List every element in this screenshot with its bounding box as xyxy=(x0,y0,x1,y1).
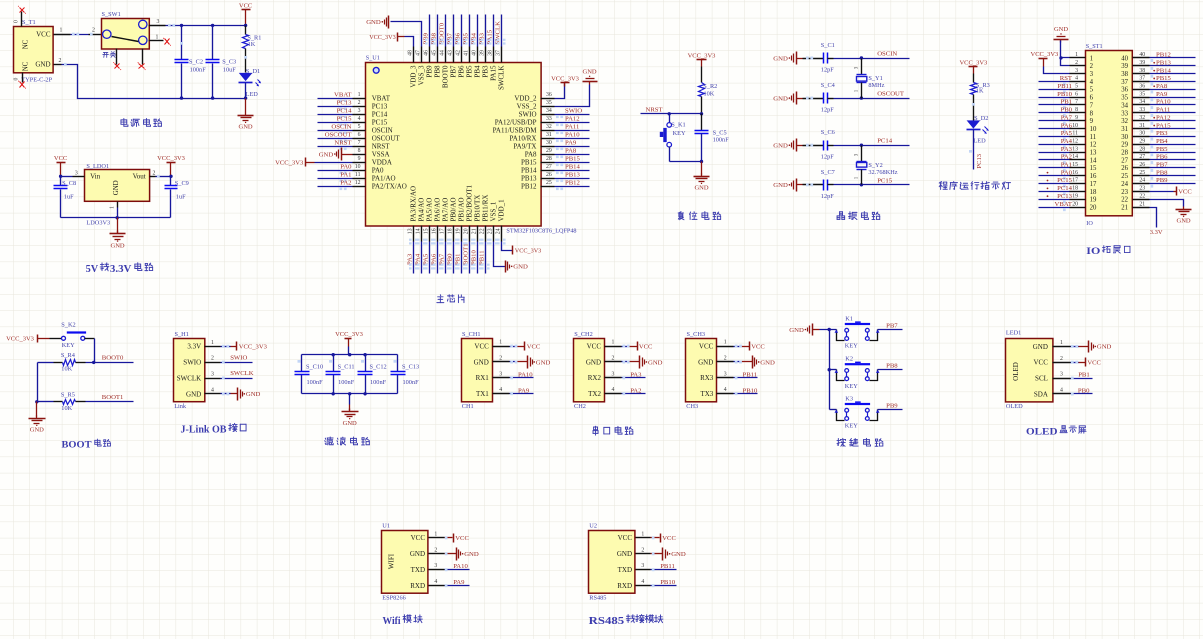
U1 pin 3 (TXD) xyxy=(411,563,445,574)
wire/net label PA12 xyxy=(555,116,590,126)
wire/net label PB6 (top) xyxy=(455,15,466,47)
svg-text:2: 2 xyxy=(358,100,361,106)
S_ST1 right pin 39 stub xyxy=(1133,60,1150,66)
title Wifi mo-kuai (wifi module) xyxy=(383,615,423,627)
push button K3 and net PB9 xyxy=(830,395,903,429)
svg-text:GND: GND xyxy=(1033,343,1048,351)
wire/net label PB13 (IO right) xyxy=(1150,59,1196,69)
svg-text:Vin: Vin xyxy=(90,173,101,181)
svg-text:RS485: RS485 xyxy=(589,595,606,602)
svg-text:SWCLK: SWCLK xyxy=(495,21,502,45)
S_CH3 pin 4 (TX3) xyxy=(700,387,733,398)
svg-text:12: 12 xyxy=(355,180,361,186)
U1 pin 2 (GND) xyxy=(410,547,445,558)
ground flag GND below LDO xyxy=(110,218,126,250)
svg-text:BOOT0: BOOT0 xyxy=(102,355,124,362)
svg-text:PA12: PA12 xyxy=(1156,114,1171,121)
svg-text:8: 8 xyxy=(1075,107,1078,113)
svg-text:3: 3 xyxy=(157,19,160,25)
svg-text:1K: 1K xyxy=(248,41,256,48)
svg-text:S_C13: S_C13 xyxy=(402,363,419,370)
capacitor S_C2 xyxy=(175,24,207,100)
MCU left pin 7 (NRST) xyxy=(353,140,391,150)
wire LDO Vin pin3 xyxy=(59,170,85,178)
svg-text:26: 26 xyxy=(1139,162,1145,168)
S_CH1 pin 3 (RX1) xyxy=(476,371,510,382)
svg-text:1: 1 xyxy=(499,340,502,346)
wire/net label PA7 (IO left) xyxy=(1039,114,1073,124)
svg-text:23: 23 xyxy=(488,228,494,234)
svg-text:GND: GND xyxy=(773,95,788,102)
svg-text:PB8: PB8 xyxy=(886,363,898,370)
resistor S_R1 1K xyxy=(243,26,262,73)
svg-text:5V: 5V xyxy=(86,264,99,275)
svg-text:PB7: PB7 xyxy=(450,65,458,78)
ground flag GND below LED xyxy=(238,99,254,131)
ground flag at MCU pin 23 VSS_1 xyxy=(494,242,528,273)
svg-text:BOOT1: BOOT1 xyxy=(102,394,124,401)
MCU top pin 43 (PB7) xyxy=(447,47,457,78)
S_ST1 inner pin names row 1 xyxy=(1090,55,1129,62)
svg-text:OLED: OLED xyxy=(1012,362,1020,381)
title fu-wei-dian-lu (reset circuit) xyxy=(678,212,721,220)
MCU left pin 8 (VSSA) xyxy=(353,148,390,158)
MCU right pin 31 (PA10/RX) xyxy=(510,132,555,142)
S_ST1 inner pin names row 18 xyxy=(1090,189,1129,196)
svg-text:3: 3 xyxy=(641,563,644,569)
ground flag GND keys xyxy=(789,324,819,336)
ground flag GND filter xyxy=(342,394,359,428)
module U1 body xyxy=(382,522,428,601)
svg-text:23: 23 xyxy=(1121,189,1128,196)
svg-text:PA2: PA2 xyxy=(340,180,351,187)
svg-text:35: 35 xyxy=(546,100,552,106)
wire/net label PA1 xyxy=(318,172,353,182)
wire/net label PA10 xyxy=(555,132,590,142)
svg-text:PB14: PB14 xyxy=(565,164,581,171)
svg-text:GND: GND xyxy=(694,185,708,192)
svg-text:PA9: PA9 xyxy=(565,140,577,147)
title IO tuo-zhan-kou (IO expansion) xyxy=(1086,246,1130,258)
svg-text:30: 30 xyxy=(546,140,552,146)
svg-text:10uF: 10uF xyxy=(223,66,236,73)
S_ST1 inner pin names row 4 xyxy=(1090,79,1129,86)
svg-text:PA7: PA7 xyxy=(439,253,446,265)
S_ST1 left pin 1 stub xyxy=(1070,52,1086,58)
svg-text:PA2: PA2 xyxy=(1061,154,1072,161)
svg-text:VDD_3: VDD_3 xyxy=(410,65,418,88)
svg-text:VSSA: VSSA xyxy=(372,150,390,158)
svg-text:1K: 1K xyxy=(976,87,984,94)
wire/net label PC14 (IO left) xyxy=(1039,185,1073,195)
svg-text:KEY: KEY xyxy=(845,423,858,430)
MCU top pin 39 (PB3) xyxy=(479,47,489,78)
svg-text:NRST: NRST xyxy=(372,142,391,150)
svg-text:S_C5: S_C5 xyxy=(713,129,727,136)
svg-text:35: 35 xyxy=(1121,95,1128,102)
S_ST1 inner pin names row 20 xyxy=(1090,204,1128,211)
svg-text:BOOT: BOOT xyxy=(62,441,93,451)
svg-text:PC15: PC15 xyxy=(1057,177,1073,184)
wire/net label PB0 (bottom) xyxy=(447,242,458,274)
svg-text:1: 1 xyxy=(60,28,63,34)
svg-text:31: 31 xyxy=(546,132,552,138)
svg-text:37: 37 xyxy=(495,50,501,56)
svg-text:KEY: KEY xyxy=(845,343,858,350)
wire/net label PA8 xyxy=(555,148,590,158)
svg-text:RS485: RS485 xyxy=(589,616,625,627)
svg-text:OSCIN: OSCIN xyxy=(331,124,351,131)
svg-text:GND: GND xyxy=(343,420,357,427)
svg-text:VCC: VCC xyxy=(411,534,426,542)
ground flag GND oled pin1 xyxy=(1071,341,1112,353)
S_ST1 left pin 8 stub xyxy=(1070,107,1086,113)
svg-text:PA12/USB/DP: PA12/USB/DP xyxy=(495,118,537,126)
MCU bottom pin 14 (PA4/AO) xyxy=(416,198,426,245)
MCU left pin 12 (PA2/TX/AO) xyxy=(353,180,407,190)
svg-text:1: 1 xyxy=(434,531,437,537)
MCU right pin 26 (PB13) xyxy=(521,172,555,182)
svg-text:100nF: 100nF xyxy=(190,66,207,73)
power flag VCC_3V3 at MCU pin 9 VDDA xyxy=(275,158,352,167)
svg-text:PB13: PB13 xyxy=(521,174,537,182)
svg-text:S_C3: S_C3 xyxy=(222,59,236,66)
svg-text:6: 6 xyxy=(358,132,361,138)
svg-text:40: 40 xyxy=(471,50,477,56)
S_CH1 pin 2 (GND) xyxy=(474,355,510,366)
wire/net label PB5 (IO right) xyxy=(1150,146,1196,156)
svg-text:VCC_3V3: VCC_3V3 xyxy=(239,344,268,351)
power flag VCC CH3 pin1 xyxy=(734,342,766,351)
connector S_CH1 body xyxy=(462,331,493,410)
svg-text:8MHz: 8MHz xyxy=(868,82,884,89)
svg-text:100nF: 100nF xyxy=(370,379,387,386)
MCU left pin 6 (OSCOUT) xyxy=(353,132,401,142)
svg-text:38: 38 xyxy=(1139,68,1145,74)
svg-text:PB5: PB5 xyxy=(466,65,474,78)
connector S_T1 (TYPE-C-2P) xyxy=(14,19,54,83)
S_ST1 right pin 22 stub xyxy=(1133,193,1150,199)
MCU right pin 29 (PA8) xyxy=(525,148,555,158)
svg-text:GND: GND xyxy=(586,358,601,366)
svg-text:GND: GND xyxy=(773,55,788,62)
S_ST1 inner pin names row 2 xyxy=(1090,63,1129,70)
wire/net label OSCIN xyxy=(318,124,353,134)
svg-text:2: 2 xyxy=(641,547,644,553)
svg-text:PB0: PB0 xyxy=(447,253,454,265)
wire S_T1 GND pin2 to bottom rail xyxy=(54,58,246,99)
svg-text:4: 4 xyxy=(499,387,502,393)
svg-text:2: 2 xyxy=(153,170,156,176)
svg-text:OLED: OLED xyxy=(1026,426,1058,437)
S_ST1 right pin 30 stub xyxy=(1133,131,1150,137)
S_ST1 left pin 20 stub xyxy=(1070,201,1086,207)
svg-text:1: 1 xyxy=(1075,52,1078,58)
svg-text:S_T1: S_T1 xyxy=(22,19,36,26)
svg-text:5: 5 xyxy=(1090,87,1094,94)
svg-text:10K: 10K xyxy=(61,366,72,373)
svg-text:PA2/TX/AO: PA2/TX/AO xyxy=(372,182,407,190)
LDO regulator S_LDO1 xyxy=(85,163,150,226)
wire/net label PC13 xyxy=(318,100,353,110)
module U2 body xyxy=(589,522,635,601)
svg-text:GND: GND xyxy=(239,124,253,131)
svg-text:CH1: CH1 xyxy=(462,403,474,410)
svg-text:21: 21 xyxy=(1139,201,1145,207)
svg-text:12: 12 xyxy=(1090,142,1097,149)
wire/net label PB3 (IO right) xyxy=(1150,130,1196,140)
power flag VCC U2 pin1 xyxy=(651,534,677,543)
svg-text:SDA: SDA xyxy=(1034,390,1048,398)
switch S_SW1 xyxy=(102,11,150,49)
wire/net label PA15 (IO right) xyxy=(1150,122,1196,132)
svg-text:VCC: VCC xyxy=(527,343,541,350)
svg-text:39: 39 xyxy=(479,50,485,56)
svg-text:25: 25 xyxy=(1139,170,1145,176)
S_CH2 pin 2 (GND) xyxy=(586,355,622,366)
svg-text:37: 37 xyxy=(1121,79,1128,86)
svg-text:GND: GND xyxy=(319,151,334,158)
MCU left pin 2 (PC13) xyxy=(353,100,388,110)
wire/net label PA0 (IO left) xyxy=(1039,169,1073,179)
connector S_H1 (J-Link OB) body xyxy=(174,331,205,410)
wire/net label PA11 (IO right) xyxy=(1150,107,1196,117)
svg-text:100nF: 100nF xyxy=(338,379,355,386)
wire/net label PB10 (IO left) xyxy=(1039,91,1073,101)
svg-text:3: 3 xyxy=(211,372,214,378)
svg-text:VBAT: VBAT xyxy=(1055,201,1072,208)
MCU left pin 1 (VBAT) xyxy=(353,92,391,102)
wire/net label SWIO xyxy=(555,108,590,118)
svg-text:LED: LED xyxy=(246,91,259,98)
svg-text:PA3/RX/AO: PA3/RX/AO xyxy=(410,186,418,222)
MCU right pin 25 (PB12) xyxy=(521,180,555,190)
svg-text:RST: RST xyxy=(1060,75,1072,82)
svg-text:PA6: PA6 xyxy=(1061,122,1073,129)
svg-text:RX1: RX1 xyxy=(476,374,490,382)
svg-text:PA7/AO: PA7/AO xyxy=(442,198,450,222)
svg-text:CH3: CH3 xyxy=(686,403,698,410)
svg-text:PA8: PA8 xyxy=(565,148,577,155)
title 5V to 3.3V circuit xyxy=(86,263,153,275)
svg-text:PB13: PB13 xyxy=(1156,59,1172,66)
svg-text:33: 33 xyxy=(1139,107,1145,113)
wire/net label PA10 (IO right) xyxy=(1150,99,1196,109)
svg-text:SWCLK: SWCLK xyxy=(230,370,254,377)
svg-text:100nF: 100nF xyxy=(713,137,730,144)
ground flag GND at IO pin 22 xyxy=(1150,200,1192,225)
svg-text:PA1: PA1 xyxy=(1061,162,1072,169)
svg-text:34: 34 xyxy=(1139,99,1145,105)
svg-text:10: 10 xyxy=(1090,126,1097,133)
S_ST1 right pin 23 stub xyxy=(1133,186,1150,192)
svg-text:GND: GND xyxy=(789,327,804,334)
svg-text:S_CH1: S_CH1 xyxy=(462,331,481,338)
ground flag GND at IO pins 1-2 xyxy=(1054,26,1070,65)
wire/net label PB5 (top) xyxy=(463,15,474,47)
wire/net label PB14 (IO right) xyxy=(1150,67,1196,77)
svg-text:12pF: 12pF xyxy=(821,66,834,73)
svg-text:9: 9 xyxy=(358,156,361,162)
wire/net label PB15 xyxy=(555,156,590,166)
svg-text:100nF: 100nF xyxy=(307,379,324,386)
wire/net label PB0 (IO left) xyxy=(1039,107,1073,117)
MCU top pin 42 (PB6) xyxy=(455,47,465,78)
capacitor S_C6 12pF with GND, net PC14 xyxy=(773,129,909,160)
S_ST1 right pin 21 stub xyxy=(1133,201,1150,207)
svg-text:32: 32 xyxy=(1139,115,1145,121)
svg-text:S_H1: S_H1 xyxy=(175,331,189,338)
svg-text:S_C10: S_C10 xyxy=(306,363,323,370)
push button S_K2 KEY (boot) xyxy=(61,321,86,349)
svg-text:PA9: PA9 xyxy=(1156,91,1168,98)
svg-text:100nF: 100nF xyxy=(403,379,420,386)
wire/net label PA10 (CH1 pin3) xyxy=(510,371,534,379)
svg-text:PB11: PB11 xyxy=(479,250,486,265)
MCU top pin 48 (VDD_3) xyxy=(407,47,417,88)
svg-text:PA9: PA9 xyxy=(453,579,465,586)
S_H1 pin 4 (GND) xyxy=(186,387,220,398)
svg-text:RX2: RX2 xyxy=(588,374,602,382)
S_ST1 right pin 32 stub xyxy=(1133,115,1150,121)
svg-text:VDDA: VDDA xyxy=(372,158,392,166)
S_CH1 pin 1 (VCC) xyxy=(474,340,509,351)
svg-text:37: 37 xyxy=(1139,76,1145,82)
power flag VCC at IO pin 23 xyxy=(1150,187,1193,196)
ground flag GND CH1 pin2 xyxy=(510,356,551,369)
svg-text:2: 2 xyxy=(611,355,614,361)
svg-text:PB11/RX: PB11/RX xyxy=(482,195,490,222)
svg-text:3: 3 xyxy=(1075,68,1078,74)
svg-text:39: 39 xyxy=(1121,63,1128,70)
svg-text:VSS_2: VSS_2 xyxy=(517,102,537,110)
svg-text:ESP8266: ESP8266 xyxy=(382,595,405,602)
S_CH3 pin 2 (GND) xyxy=(698,355,733,366)
svg-text:1: 1 xyxy=(110,206,116,209)
svg-text:12pF: 12pF xyxy=(821,193,834,200)
capacitor S_C8 1uF xyxy=(54,177,77,218)
no-connect flag on S_T1 bottom pin xyxy=(18,81,26,89)
svg-text:GND: GND xyxy=(513,264,528,271)
svg-text:14: 14 xyxy=(1072,154,1078,160)
wire/net label SWIO jlink pin2 xyxy=(221,355,253,364)
svg-text:40: 40 xyxy=(1139,52,1145,58)
svg-text:6: 6 xyxy=(1090,95,1094,102)
svg-text:32: 32 xyxy=(1121,118,1128,125)
net label BOOT1 xyxy=(102,394,124,401)
svg-text:OLED: OLED xyxy=(1006,403,1023,410)
svg-text:VCC: VCC xyxy=(587,343,602,351)
S_H1 pin 2 (SWIO) xyxy=(183,356,220,367)
svg-text:VCC_3V3: VCC_3V3 xyxy=(369,34,395,41)
svg-text:GND: GND xyxy=(773,143,788,150)
power flag VCC U1 pin1 xyxy=(445,534,470,543)
wire/net label PA9 xyxy=(555,140,590,150)
wire/net label PA2 (CH2 pin4) xyxy=(622,387,646,395)
svg-text:J-Link OB: J-Link OB xyxy=(181,425,227,436)
svg-text:34: 34 xyxy=(546,108,552,114)
svg-text:5: 5 xyxy=(358,124,361,130)
wire/net label PA9 (CH1 pin4) xyxy=(510,387,534,395)
wire/net label OSCOUT xyxy=(318,132,353,142)
MCU right pin 34 (SWIO) xyxy=(519,108,555,118)
MCU bottom pin 19 (PB1/AO) xyxy=(456,197,466,244)
svg-text:4: 4 xyxy=(1060,387,1063,393)
MCU right pin 32 (PA11/USB/DM) xyxy=(493,124,555,134)
push button K1 and net PB7 xyxy=(835,315,903,349)
S_ST1 left pin 4 stub xyxy=(1070,76,1086,82)
svg-text:PB7: PB7 xyxy=(886,323,898,330)
U2 pin 1 (VCC) xyxy=(618,531,651,542)
svg-text:PC13: PC13 xyxy=(976,154,983,168)
svg-text:13: 13 xyxy=(1072,146,1078,152)
svg-text:VCC: VCC xyxy=(751,343,765,350)
LED1 pin 4 (SDA) xyxy=(1034,387,1071,398)
S_CH2 pin 1 (VCC) xyxy=(587,340,622,351)
wire/net label PC13 (IO left) xyxy=(1039,193,1073,203)
svg-text:36: 36 xyxy=(1139,84,1145,90)
svg-text:36: 36 xyxy=(1121,87,1128,94)
power flag VCC_3V3 at MCU pin 48 VDD_3 xyxy=(369,33,413,47)
svg-text:U1: U1 xyxy=(382,522,390,529)
filter bottom rail wire xyxy=(302,375,398,396)
svg-text:3.3V: 3.3V xyxy=(1150,229,1163,236)
svg-text:GND: GND xyxy=(474,358,489,366)
svg-text:PC14: PC14 xyxy=(877,138,893,145)
wire/net label PB6 (IO right) xyxy=(1150,154,1196,164)
MCU right pin 35 (VSS_2) xyxy=(517,100,555,110)
S_ST1 left pin 6 stub xyxy=(1070,91,1086,97)
svg-text:PC14: PC14 xyxy=(337,108,353,115)
svg-text:2: 2 xyxy=(1060,356,1063,362)
wire/net label PA6 (IO left) xyxy=(1039,122,1073,132)
S_CH1 pin 4 (TX1) xyxy=(476,387,510,398)
svg-text:PA11/USB/DM: PA11/USB/DM xyxy=(493,126,538,134)
svg-text:VCC_3V3: VCC_3V3 xyxy=(275,159,304,166)
wire/net label BOOT0 (top) xyxy=(439,15,450,47)
svg-text:23: 23 xyxy=(1139,186,1145,192)
svg-text:OSCIN: OSCIN xyxy=(372,126,393,134)
svg-text:32: 32 xyxy=(546,124,552,130)
svg-text:BOOT0: BOOT0 xyxy=(442,65,450,88)
connector S_CH2 body xyxy=(574,331,605,410)
svg-text:0: 0 xyxy=(14,20,20,23)
MCU bottom pin 23 (VSS_1) xyxy=(488,201,498,244)
svg-text:33: 33 xyxy=(1121,110,1128,117)
S_ST1 right pin 31 stub xyxy=(1133,123,1150,129)
svg-text:PA12: PA12 xyxy=(565,116,580,123)
push button K2 and net PB8 xyxy=(830,356,903,390)
svg-text:PB1/AO: PB1/AO xyxy=(458,197,466,221)
svg-text:S_C9: S_C9 xyxy=(175,180,189,187)
S_ST1 left pin 9 stub xyxy=(1070,115,1086,121)
power flag VCC_3V3 at MCU pin 24 VDD_1 xyxy=(502,242,542,255)
S_ST1 left pin 7 stub xyxy=(1070,99,1086,105)
svg-text:38: 38 xyxy=(487,50,493,56)
svg-text:NRST: NRST xyxy=(646,107,663,114)
U2 pin 4 (RXD) xyxy=(617,579,650,590)
svg-text:LDO3V3: LDO3V3 xyxy=(86,219,110,226)
svg-text:PB10: PB10 xyxy=(471,249,478,265)
svg-text:22: 22 xyxy=(480,228,486,234)
svg-text:PB3: PB3 xyxy=(1156,130,1168,137)
svg-text:29: 29 xyxy=(1121,142,1128,149)
wire/net label PB10 (CH3 pin4) xyxy=(734,387,759,395)
wire/net label PA4 (IO left) xyxy=(1039,138,1073,148)
svg-text:TX2: TX2 xyxy=(588,390,601,398)
svg-text:39: 39 xyxy=(1139,60,1145,66)
svg-text:14: 14 xyxy=(416,228,422,234)
